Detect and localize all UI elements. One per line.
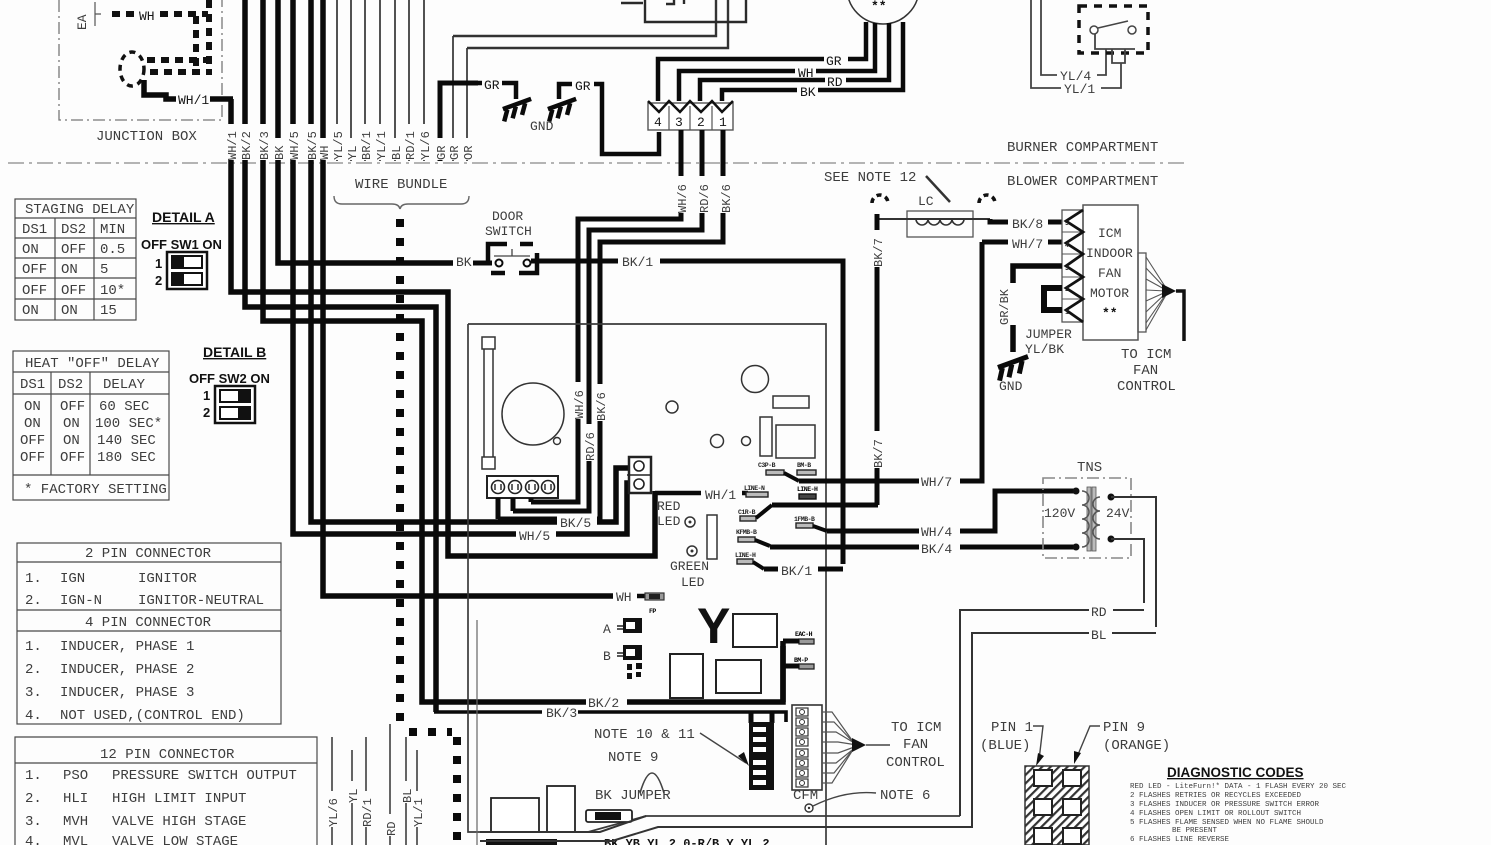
svg-text:YL/1: YL/1 [375, 131, 389, 160]
svg-text:2: 2 [697, 115, 705, 130]
svg-text:2 FLASHES RETRIES OR RECYCLES: 2 FLASHES RETRIES OR RECYCLES EXCEEDED [1130, 792, 1302, 800]
svg-text:WH/1: WH/1 [226, 131, 240, 160]
2-pin connector [627, 457, 651, 493]
svg-text:VALVE HIGH STAGE: VALVE HIGH STAGE [112, 814, 246, 830]
svg-text:IGN: IGN [60, 571, 85, 587]
dashed double horizontal [147, 57, 212, 63]
spade terminals group [735, 462, 827, 569]
svg-text:BLOWER COMPARTMENT: BLOWER COMPARTMENT [1007, 174, 1158, 190]
wire BL routing along board bottom [480, 633, 1089, 841]
svg-text:GR: GR [448, 146, 462, 160]
svg-text:4: 4 [1065, 242, 1069, 249]
svg-text:WH: WH [139, 9, 155, 24]
svg-text:ON: ON [24, 416, 41, 432]
limit switch S1 (dashed enclosure, top right) [1079, 6, 1148, 63]
svg-text:HIGH LIMIT INPUT: HIGH LIMIT INPUT [112, 791, 246, 807]
svg-text:OFF SW1 ON: OFF SW1 ON [141, 237, 222, 252]
svg-text:BK YB YL 2 0-R/B Y YL 2: BK YB YL 2 0-R/B Y YL 2 [604, 837, 770, 845]
compartment divider dash-dot [8, 162, 1185, 164]
heat off delay text [20, 356, 167, 498]
small glyphs below [627, 664, 632, 670]
svg-text:2: 2 [155, 273, 162, 288]
svg-text:BL: BL [1091, 628, 1107, 643]
svg-text:DS1: DS1 [20, 377, 45, 393]
svg-text:TO ICM: TO ICM [891, 720, 941, 736]
C1R-B to BK/7 line [772, 503, 878, 508]
svg-text:YL/6: YL/6 [419, 131, 433, 160]
ICM right fanout [1138, 253, 1146, 332]
svg-text:HLI: HLI [63, 791, 88, 807]
svg-text:EA: EA [75, 14, 90, 30]
svg-text:NOTE 6: NOTE 6 [880, 788, 930, 804]
svg-text:INDUCER, PHASE 3: INDUCER, PHASE 3 [60, 685, 194, 701]
svg-text:0.5: 0.5 [100, 242, 125, 258]
svg-text:PIN 9: PIN 9 [1103, 720, 1145, 736]
wire BL from TNS 24V secondary top [1111, 497, 1156, 627]
svg-text:FAN: FAN [1098, 266, 1121, 281]
labels on right wires [919, 474, 960, 487]
wire WH/1 [231, 99, 655, 556]
svg-text:YL/1: YL/1 [1064, 82, 1095, 97]
svg-text:C1R-B: C1R-B [738, 509, 756, 516]
svg-text:BM-B: BM-B [797, 462, 811, 469]
svg-text:5: 5 [1065, 220, 1069, 227]
12 pin connector text [25, 747, 297, 845]
svg-text:GR: GR [484, 78, 500, 93]
2/4 pin connector text [25, 546, 264, 724]
svg-text:1: 1 [203, 388, 210, 403]
svg-text:BK/7: BK/7 [872, 439, 886, 468]
svg-text:DS2: DS2 [61, 222, 86, 238]
svg-text:DS2: DS2 [58, 377, 83, 393]
WH/1 line to LINE-N [655, 491, 701, 496]
svg-text:DETAIL B: DETAIL B [203, 344, 266, 360]
svg-text:RD/6: RD/6 [584, 432, 598, 461]
svg-text:BK/7: BK/7 [872, 238, 886, 267]
svg-text:BR/1: BR/1 [360, 131, 374, 160]
BK/8 wire to ICM [990, 219, 1008, 222]
thick GR bundle wire to GND [440, 83, 478, 161]
svg-text:BK/1: BK/1 [622, 255, 653, 270]
12 pin connector table [15, 737, 317, 845]
svg-text:TNS: TNS [1077, 460, 1102, 476]
board small circles and components (top right) [666, 401, 678, 413]
BK/1 wire from door switch [531, 259, 618, 264]
detail A [141, 209, 222, 289]
svg-text:YL: YL [346, 146, 360, 160]
svg-text:2: 2 [1065, 286, 1069, 293]
svg-text:DETAIL A: DETAIL A [152, 209, 215, 225]
svg-text:IGNITOR: IGNITOR [138, 571, 197, 587]
svg-text:4.: 4. [25, 708, 42, 724]
svg-text:MVH: MVH [63, 814, 88, 830]
svg-text:Y: Y [697, 598, 730, 654]
svg-text:RED LED - LiteFurn!* DATA - 1: RED LED - LiteFurn!* DATA - 1 FLASH EVER… [1130, 783, 1347, 791]
svg-text:PSO: PSO [63, 768, 88, 784]
svg-text:TO ICM: TO ICM [1121, 347, 1171, 363]
wire YL/1 to limit switch [1031, 0, 1121, 97]
WH/7 line from C3P-B [799, 242, 982, 481]
svg-text:NOT USED,(CONTROL END): NOT USED,(CONTROL END) [60, 708, 245, 724]
svg-text:3 FLASHES INDUCER OR PRESSURE: 3 FLASHES INDUCER OR PRESSURE SWITCH ERR… [1130, 801, 1320, 809]
WH wire FP terminal [613, 590, 639, 603]
blower motor M1 (circle, partially cut at top) [847, 0, 919, 24]
svg-text:RD: RD [1091, 605, 1107, 620]
svg-text:2.: 2. [25, 662, 42, 678]
svg-text:LED: LED [681, 575, 705, 590]
slender vertical component [482, 337, 495, 469]
wire WH/1 from junction box [144, 80, 176, 99]
svg-text:NOTE 10 & 11: NOTE 10 & 11 [594, 727, 695, 743]
svg-text:RD/1: RD/1 [404, 131, 418, 160]
svg-text:OFF: OFF [60, 399, 85, 415]
label gaps for bottom BK/2 BK/3 [586, 695, 627, 707]
svg-text:WH/4: WH/4 [921, 525, 952, 540]
svg-text:INDUCER, PHASE 1: INDUCER, PHASE 1 [60, 639, 194, 655]
svg-text:ON: ON [63, 433, 80, 449]
wire YL/4 to limit switch [1041, 0, 1106, 84]
svg-text:MOTOR: MOTOR [1090, 286, 1129, 301]
dashed WH wire [112, 11, 136, 17]
svg-text:BK/4: BK/4 [921, 542, 952, 557]
svg-text:WH: WH [318, 146, 332, 160]
svg-text:ON: ON [61, 262, 78, 278]
svg-text:BK/3: BK/3 [258, 131, 272, 160]
svg-text:SEE NOTE 12: SEE NOTE 12 [824, 170, 916, 186]
wire BK from motor to connector pin 1 [722, 22, 903, 101]
svg-text:SWITCH: SWITCH [485, 224, 532, 239]
svg-text:3: 3 [1065, 265, 1069, 272]
svg-text:1.: 1. [25, 768, 42, 784]
dashed wire nut oval [120, 52, 144, 86]
svg-text:BK/2: BK/2 [240, 131, 254, 160]
svg-text:180 SEC: 180 SEC [97, 450, 156, 466]
svg-text:(ORANGE): (ORANGE) [1103, 738, 1170, 754]
detail B [189, 344, 270, 423]
svg-text:ICM: ICM [1098, 226, 1121, 241]
svg-text:WH/6: WH/6 [573, 390, 587, 419]
dotted bundle routing line [396, 219, 404, 728]
svg-text:CONTROL: CONTROL [1117, 379, 1176, 395]
2/4 pin connector table [17, 543, 281, 724]
svg-text:LC: LC [918, 194, 934, 209]
svg-text:EAC-H: EAC-H [795, 631, 813, 638]
svg-text:INDOOR: INDOOR [1086, 246, 1133, 261]
labels inside board on risers [573, 382, 587, 419]
4-terminal strip [487, 476, 558, 498]
svg-text:3.: 3. [25, 685, 42, 701]
svg-text:1: 1 [719, 115, 727, 130]
svg-text:LINE-H: LINE-H [735, 552, 756, 559]
BK/5 WH/5 labels [557, 515, 597, 528]
svg-text:5: 5 [100, 262, 108, 278]
relay boxes [733, 614, 777, 647]
wire WH from motor to connector pin 3 [679, 23, 875, 101]
svg-text:GR: GR [435, 146, 449, 160]
svg-text:ON: ON [22, 242, 39, 258]
svg-text:CONTROL: CONTROL [886, 755, 945, 771]
ground 2 [559, 84, 572, 99]
svg-text:1.: 1. [25, 639, 42, 655]
wire WH to FP [323, 0, 614, 596]
svg-text:KFMB-B: KFMB-B [736, 529, 757, 536]
svg-text:24V: 24V [1106, 506, 1130, 521]
svg-text:100 SEC*: 100 SEC* [95, 416, 162, 432]
wire BK/3 (to BK/2 line) [263, 0, 783, 702]
svg-text:JUNCTION BOX: JUNCTION BOX [96, 129, 197, 145]
svg-text:A: A [603, 622, 611, 637]
BK/1 lower line [764, 567, 778, 572]
JUMPER YL/BK pins 2-1 [1044, 288, 1062, 310]
svg-text:15: 15 [100, 303, 117, 319]
svg-text:RD: RD [827, 75, 843, 90]
wire GR from motor to connector pin 4 [658, 22, 866, 101]
svg-text:DOOR: DOOR [492, 209, 523, 224]
dashed verticals [193, 16, 199, 72]
svg-text:OFF: OFF [20, 433, 45, 449]
svg-text:4 PIN CONNECTOR: 4 PIN CONNECTOR [85, 615, 212, 631]
svg-text:HEAT "OFF" DELAY: HEAT "OFF" DELAY [25, 356, 160, 372]
junction box dash-dot border [59, 0, 222, 120]
svg-text:WH: WH [798, 66, 814, 81]
svg-text:BK: BK [273, 145, 287, 160]
svg-text:IGNITOR-NEUTRAL: IGNITOR-NEUTRAL [138, 593, 264, 609]
board outline [468, 324, 960, 845]
svg-text:6 FLASHES LINE REVERSE: 6 FLASHES LINE REVERSE [1130, 836, 1230, 844]
svg-text:ON: ON [63, 416, 80, 432]
svg-text:OFF SW2 ON: OFF SW2 ON [189, 371, 270, 386]
staging delay text [22, 202, 135, 319]
svg-text:1.: 1. [25, 571, 42, 587]
svg-text:GR/BK: GR/BK [998, 288, 1012, 325]
top thin component box (cut) [621, 0, 746, 22]
svg-text:1: 1 [1065, 309, 1069, 316]
svg-text:FP: FP [649, 608, 656, 615]
svg-text:ON: ON [22, 303, 39, 319]
WH/7 wire to ICM pin4 [982, 240, 1008, 245]
svg-text:OFF: OFF [22, 262, 47, 278]
svg-text:BK/2: BK/2 [588, 696, 619, 711]
svg-text:2.: 2. [25, 791, 42, 807]
NOTE10/11 dip component [751, 712, 772, 723]
svg-text:RED: RED [657, 499, 681, 514]
svg-text:LINE-H: LINE-H [797, 486, 818, 493]
svg-text:OFF: OFF [61, 242, 86, 258]
svg-text:GND: GND [999, 379, 1023, 394]
svg-text:LED: LED [657, 514, 681, 529]
svg-text:2.: 2. [25, 593, 42, 609]
svg-text:BE PRESENT: BE PRESENT [1172, 827, 1218, 835]
BK/4 line [770, 545, 919, 550]
wire RD routing along board bottom [480, 610, 1089, 832]
svg-text:RD: RD [385, 822, 399, 836]
svg-text:NOTE 9: NOTE 9 [608, 750, 658, 766]
svg-text:WH/5: WH/5 [288, 131, 302, 160]
svg-text:WH/1: WH/1 [705, 488, 736, 503]
svg-text:YL: YL [347, 789, 361, 803]
svg-text:C3P-B: C3P-B [758, 462, 776, 469]
pins 3,2,1 wires down with jogs [498, 130, 723, 519]
svg-text:BK/8: BK/8 [1012, 217, 1043, 232]
svg-text:B: B [603, 649, 611, 664]
svg-text:DS1: DS1 [22, 222, 47, 238]
svg-text:* FACTORY SETTING: * FACTORY SETTING [24, 482, 167, 498]
staging delay table [15, 199, 136, 320]
svg-text:BK: BK [800, 85, 816, 100]
svg-text:OFF: OFF [22, 283, 47, 299]
svg-text:10*: 10* [100, 283, 125, 299]
svg-text:3.: 3. [25, 814, 42, 830]
svg-text:GR: GR [575, 79, 591, 94]
svg-text:LINE-N: LINE-N [744, 485, 765, 492]
BK/7 vertical [875, 214, 880, 505]
heat off delay table [13, 351, 169, 500]
wire BK/5 [311, 0, 629, 522]
rotated labels WH/6 RD/6 BK/6 under connector [573, 176, 734, 461]
wire RD from motor to connector pin 2 [700, 23, 889, 101]
svg-text:(BLUE): (BLUE) [980, 738, 1030, 754]
svg-text:YL/1: YL/1 [412, 798, 426, 827]
svg-text:2: 2 [203, 405, 210, 420]
svg-text:BK/3: BK/3 [546, 706, 577, 721]
svg-text:GREEN: GREEN [670, 559, 709, 574]
svg-text:ON: ON [24, 399, 41, 415]
svg-text:IGN-N: IGN-N [60, 593, 102, 609]
svg-text:WH/5: WH/5 [519, 529, 550, 544]
svg-text:WIRE BUNDLE: WIRE BUNDLE [355, 177, 447, 193]
bottom-left board components [491, 798, 539, 832]
svg-text:1: 1 [155, 256, 162, 271]
svg-text:2 PIN CONNECTOR: 2 PIN CONNECTOR [85, 546, 212, 562]
svg-text:OR: OR [462, 146, 476, 160]
strip pin wires down [498, 498, 531, 519]
ground 1 [478, 81, 482, 86]
svg-text:YL/5: YL/5 [332, 131, 346, 160]
svg-text:1FMB-B: 1FMB-B [794, 516, 815, 523]
svg-text:ON: ON [61, 303, 78, 319]
svg-text:DIAGNOSTIC CODES: DIAGNOSTIC CODES [1167, 765, 1304, 780]
svg-text:WH/1: WH/1 [178, 93, 209, 108]
svg-text:5 FLASHES FLAME SENSED WHEN N: 5 FLASHES FLAME SENSED WHEN NO FLAME SHO… [1130, 819, 1324, 827]
wire BK to door switch [278, 0, 454, 263]
svg-text:12 PIN CONNECTOR: 12 PIN CONNECTOR [100, 747, 235, 763]
bottom left wire stubs [332, 724, 417, 845]
svg-text:STAGING DELAY: STAGING DELAY [25, 202, 135, 218]
svg-text:4: 4 [654, 115, 662, 130]
svg-text:OFF: OFF [61, 283, 86, 299]
big capacitor circle [502, 383, 564, 445]
svg-text:PRESSURE SWITCH OUTPUT: PRESSURE SWITCH OUTPUT [112, 768, 297, 784]
svg-text:FAN: FAN [1133, 363, 1158, 379]
svg-text:CFM: CFM [793, 788, 818, 804]
svg-text:BK JUMPER: BK JUMPER [595, 788, 671, 804]
svg-text:4 FLASHES OPEN LIMIT OR ROLLO: 4 FLASHES OPEN LIMIT OR ROLLOUT SWITCH [1130, 810, 1301, 818]
svg-text:RD/6: RD/6 [698, 184, 712, 213]
svg-text:GR: GR [826, 54, 842, 69]
svg-text:120V: 120V [1044, 506, 1075, 521]
svg-text:PIN 1: PIN 1 [991, 720, 1033, 736]
svg-text:DELAY: DELAY [103, 377, 146, 393]
svg-text:4.: 4. [25, 834, 42, 845]
svg-text:YL/BK: YL/BK [1025, 342, 1064, 357]
svg-text:YL/6: YL/6 [327, 798, 341, 827]
svg-text:MVL: MVL [63, 834, 88, 845]
svg-text:60 SEC: 60 SEC [99, 399, 149, 415]
svg-text:OFF: OFF [20, 450, 45, 466]
wire RD from TNS 24V secondary bottom [1111, 539, 1144, 603]
svg-text:INDUCER, PHASE 2: INDUCER, PHASE 2 [60, 662, 194, 678]
svg-text:WH/7: WH/7 [1012, 237, 1043, 252]
svg-text:**: ** [871, 0, 887, 14]
svg-text:3: 3 [675, 115, 683, 130]
rotated wire labels row (y 125..160) [226, 124, 476, 160]
svg-text:BURNER COMPARTMENT: BURNER COMPARTMENT [1007, 140, 1158, 156]
svg-text:BK/6: BK/6 [595, 392, 609, 421]
svg-text:140 SEC: 140 SEC [97, 433, 156, 449]
wire BK/2 (to BK/3 line) [245, 0, 436, 712]
wire WH/5 [293, 0, 629, 534]
svg-text:BK/6: BK/6 [720, 184, 734, 213]
svg-text:JUMPER: JUMPER [1025, 327, 1072, 342]
svg-text:WH: WH [616, 590, 632, 605]
svg-text:RD/1: RD/1 [361, 798, 375, 827]
svg-text:WH/7: WH/7 [921, 475, 952, 490]
svg-text:FAN: FAN [903, 737, 928, 753]
inner thin vertical [476, 620, 478, 845]
svg-text:MIN: MIN [100, 222, 125, 238]
svg-text:BK/5: BK/5 [560, 516, 591, 531]
svg-text:BM-P: BM-P [794, 657, 808, 664]
svg-text:BK/1: BK/1 [781, 564, 812, 579]
svg-text:WH/6: WH/6 [676, 184, 690, 213]
GR/BK wire to pin3 + GND [1013, 266, 1062, 283]
svg-text:VALVE LOW STAGE: VALVE LOW STAGE [112, 834, 238, 845]
svg-text:**: ** [1102, 306, 1118, 321]
svg-text:OFF: OFF [60, 450, 85, 466]
WH/4 line [827, 529, 919, 534]
svg-text:BK: BK [456, 255, 472, 270]
svg-text:BL: BL [390, 146, 404, 160]
